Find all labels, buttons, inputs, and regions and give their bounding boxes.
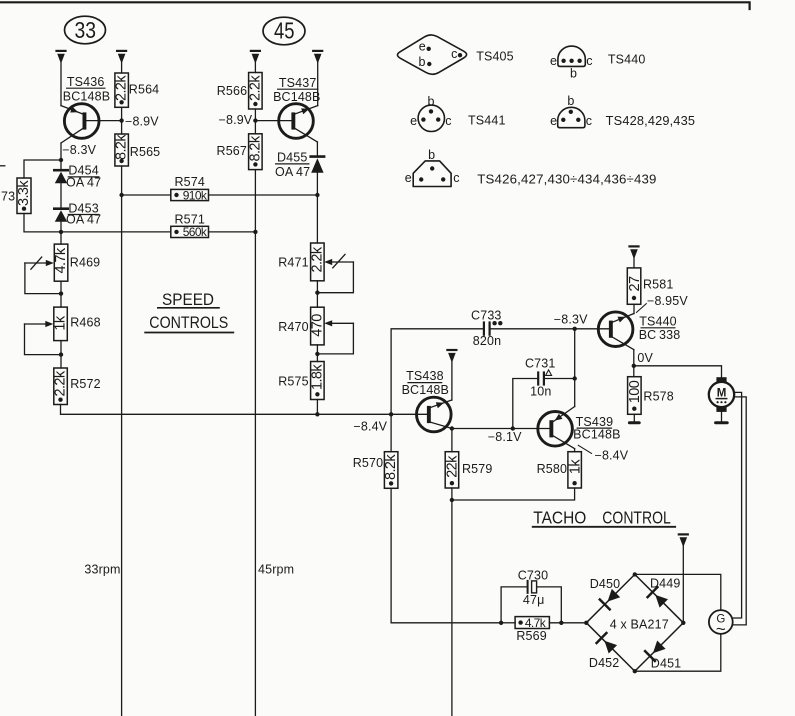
svg-text:22k: 22k bbox=[445, 455, 461, 478]
svg-text:b: b bbox=[419, 55, 426, 69]
diode D454 bbox=[54, 160, 67, 208]
wire bridge bottom to generator bbox=[635, 634, 721, 671]
node 33 speed oval bbox=[65, 16, 106, 44]
svg-text:b: b bbox=[570, 67, 577, 81]
resistor R580 1k bbox=[452, 452, 582, 500]
svg-text:8.2k: 8.2k bbox=[383, 454, 399, 480]
svg-text:c: c bbox=[451, 47, 457, 61]
svg-text:e: e bbox=[405, 171, 412, 185]
svg-text:R570: R570 bbox=[353, 456, 383, 470]
supply arrow above R564 bbox=[117, 51, 126, 73]
svg-text:TS437: TS437 bbox=[279, 76, 317, 90]
svg-text:R567: R567 bbox=[217, 144, 247, 158]
svg-text:R581: R581 bbox=[643, 277, 673, 291]
wire bridge top to generator bbox=[635, 574, 721, 610]
svg-text:D450: D450 bbox=[590, 577, 620, 591]
svg-text:~: ~ bbox=[716, 620, 726, 639]
svg-text:TS426,427,430÷434,436÷439: TS426,427,430÷434,436÷439 bbox=[477, 172, 656, 186]
transistor legend package TS426 427 430-434 436-439 bbox=[413, 161, 451, 187]
node TS436 emitter / R573 branch bbox=[59, 158, 63, 162]
svg-text:b: b bbox=[428, 95, 435, 109]
node bridge bottom corner bbox=[633, 669, 637, 673]
node TS438 collector bbox=[450, 426, 454, 430]
resistor R468 1k trimmer bbox=[25, 307, 68, 355]
svg-text:4.7k: 4.7k bbox=[525, 616, 547, 630]
svg-text:−8.4V: −8.4V bbox=[353, 420, 387, 434]
svg-text:45: 45 bbox=[274, 18, 295, 44]
supply arrow above R581 bbox=[630, 246, 639, 268]
svg-text:R470: R470 bbox=[278, 320, 308, 334]
svg-text:TS405: TS405 bbox=[476, 49, 514, 63]
svg-text:OA 47: OA 47 bbox=[275, 165, 310, 179]
svg-text:−8.4V: −8.4V bbox=[595, 448, 629, 462]
diode D451 bbox=[645, 641, 666, 662]
svg-text:CONTROLS: CONTROLS bbox=[149, 314, 228, 332]
resistor R564 2.2k bbox=[115, 73, 128, 107]
transistor TS437 bbox=[255, 104, 317, 156]
resistor R579 22k bbox=[445, 429, 459, 716]
node D453 bottom / R571 left bbox=[59, 230, 63, 234]
node C731 right bbox=[573, 376, 577, 380]
svg-text:−8.9V: −8.9V bbox=[219, 113, 253, 127]
svg-text:R564: R564 bbox=[129, 83, 159, 97]
resistor R581 27 bbox=[627, 268, 641, 314]
diode D449 bbox=[648, 587, 668, 608]
svg-text:100: 100 bbox=[627, 380, 643, 403]
svg-text:R471: R471 bbox=[278, 256, 308, 270]
diode D450 bbox=[600, 589, 620, 610]
resistor R470 470 trimmer bbox=[311, 307, 354, 361]
node R470 wiper bbox=[315, 352, 319, 356]
svg-text:c: c bbox=[586, 114, 592, 128]
svg-text:0V: 0V bbox=[637, 351, 653, 365]
svg-text:C730: C730 bbox=[518, 568, 548, 582]
node R469 wiper bbox=[59, 291, 63, 295]
capacitor C733 820n bbox=[391, 321, 575, 414]
label D453 OA47 bbox=[66, 201, 101, 226]
label TS436 BC148B bbox=[63, 75, 110, 104]
svg-text:TS438: TS438 bbox=[406, 369, 444, 383]
svg-text:820n: 820n bbox=[473, 334, 501, 348]
label TS440 BC338 bbox=[639, 315, 681, 342]
svg-text:R468: R468 bbox=[70, 315, 100, 329]
svg-text:TACHO: TACHO bbox=[533, 507, 586, 527]
svg-text:470: 470 bbox=[309, 314, 325, 337]
generator G bbox=[709, 610, 733, 634]
svg-text:8.2k: 8.2k bbox=[248, 135, 264, 161]
svg-text:R566: R566 bbox=[217, 84, 247, 98]
wire R565 down / 33rpm column bbox=[121, 166, 123, 716]
svg-text:4 x BA217: 4 x BA217 bbox=[610, 617, 669, 631]
node R571 right junction bbox=[253, 230, 257, 234]
diode D453 bbox=[54, 209, 67, 244]
node R574 right junction bbox=[315, 193, 319, 197]
diode D452 bbox=[597, 633, 618, 654]
bridge rectifier sides bbox=[586, 574, 683, 671]
svg-text:R580: R580 bbox=[537, 462, 567, 476]
svg-text:TS440: TS440 bbox=[608, 53, 646, 67]
wire R573 bottom to column bbox=[24, 214, 61, 232]
motor M bbox=[709, 377, 734, 421]
wire -8.4V rail bbox=[61, 405, 428, 415]
svg-text:2.2k: 2.2k bbox=[53, 370, 69, 396]
node bridge top corner bbox=[633, 572, 637, 576]
label D455 OA47 bbox=[275, 151, 310, 179]
svg-text:BC148B: BC148B bbox=[402, 383, 449, 397]
svg-text:2.2k: 2.2k bbox=[114, 75, 130, 101]
svg-text:R565: R565 bbox=[130, 145, 160, 159]
capacitor C731 10n bbox=[513, 370, 575, 429]
svg-text:b: b bbox=[567, 94, 574, 108]
supply arrow above R566 bbox=[251, 51, 260, 73]
resistor R572 2.2k bbox=[54, 368, 68, 405]
svg-text:33: 33 bbox=[75, 17, 97, 43]
svg-text:SPEED: SPEED bbox=[162, 291, 214, 309]
label D454 OA47 bbox=[66, 164, 101, 190]
wire R564 to -8.9V node bbox=[121, 107, 123, 134]
svg-text:R578: R578 bbox=[643, 389, 673, 403]
svg-text:BC148B: BC148B bbox=[63, 89, 110, 103]
wire motor to generator pair line 2 bbox=[732, 397, 746, 625]
legend row1 labels bbox=[419, 39, 646, 80]
svg-text:C731: C731 bbox=[525, 357, 555, 371]
resistor R578 100 bbox=[628, 366, 642, 421]
title SPEED CONTROLS bbox=[144, 291, 234, 333]
svg-text:b: b bbox=[428, 148, 435, 162]
node R574 left junction bbox=[119, 193, 123, 197]
svg-text:R575: R575 bbox=[278, 375, 308, 389]
transistor legend package TS440 bbox=[558, 46, 585, 66]
svg-text:1k: 1k bbox=[567, 459, 583, 474]
svg-text:TS428,429,435: TS428,429,435 bbox=[606, 114, 695, 128]
svg-text:−8.95V: −8.95V bbox=[647, 294, 688, 308]
wire -8.3V node down to TS439 emitter bbox=[574, 329, 576, 407]
svg-text:TS440: TS440 bbox=[639, 315, 677, 329]
supply arrow above bridge bbox=[679, 534, 688, 622]
node -8.3V junction bbox=[573, 327, 577, 331]
label G generator bbox=[716, 613, 726, 638]
svg-text:910k: 910k bbox=[183, 188, 208, 202]
page top border bbox=[0, 2, 750, 9]
resistor R575 1.8k bbox=[311, 362, 325, 415]
legend row3 labels bbox=[405, 148, 657, 186]
svg-text:−8.9V: −8.9V bbox=[125, 114, 159, 128]
wire R566 to node bbox=[254, 109, 256, 134]
svg-text:D449: D449 bbox=[650, 576, 680, 590]
svg-text:2.2k: 2.2k bbox=[309, 246, 325, 272]
wire R469 to R468 bbox=[60, 281, 62, 307]
svg-text:e: e bbox=[419, 39, 426, 53]
wire left edge tick bbox=[0, 165, 5, 167]
transistor legend package TS428 429 435 bbox=[558, 107, 585, 127]
svg-text:33rpm: 33rpm bbox=[84, 563, 120, 577]
wire motor to generator pair line 1 bbox=[732, 392, 742, 618]
label C733 820n bbox=[471, 308, 501, 348]
title TACHO CONTROL bbox=[532, 507, 676, 527]
transistor TS440 bbox=[598, 304, 646, 366]
svg-text:e: e bbox=[550, 114, 557, 128]
transistor legend package TS405 bbox=[397, 35, 466, 74]
wire R468 to R572 bbox=[60, 341, 62, 368]
svg-text:−8.1V: −8.1V bbox=[488, 430, 522, 444]
svg-text:c: c bbox=[453, 171, 459, 185]
resistor R567 8.2k bbox=[249, 134, 263, 170]
resistor value texts bbox=[16, 75, 643, 630]
node bridge right corner bbox=[681, 621, 685, 625]
node bridge left corner bbox=[584, 621, 588, 625]
resistor R469 4.7k trimmer bbox=[25, 244, 68, 294]
wire 0V to motor bbox=[634, 366, 722, 377]
svg-text:BC148B: BC148B bbox=[573, 427, 620, 441]
legend row2 labels bbox=[410, 94, 695, 128]
resistor R565 8.2k bbox=[115, 134, 128, 166]
node R579-R580 bottom join bbox=[450, 498, 454, 502]
svg-text:D451: D451 bbox=[651, 657, 681, 671]
svg-text:27: 27 bbox=[627, 276, 643, 291]
svg-text:OA 47: OA 47 bbox=[66, 176, 101, 190]
node R569 left bbox=[499, 621, 503, 625]
node 45 speed oval bbox=[263, 17, 305, 45]
svg-text:R572: R572 bbox=[70, 377, 100, 391]
node R468 wiper bbox=[59, 352, 63, 356]
supply arrow above TS437 emitter bbox=[313, 51, 322, 106]
svg-text:−8.3V: −8.3V bbox=[554, 313, 588, 327]
transistor TS436 bbox=[61, 104, 122, 160]
svg-text:M: M bbox=[717, 388, 727, 400]
ground below motor bbox=[714, 421, 729, 424]
supply arrow above TS436 emitter bbox=[57, 51, 66, 106]
diode D455 bbox=[311, 157, 324, 243]
svg-text:D455: D455 bbox=[277, 151, 307, 165]
wire -8.3V node to TS440 base bbox=[575, 328, 609, 330]
node -8.9V (45 side) bbox=[253, 118, 257, 122]
node 0V junction bbox=[632, 364, 636, 368]
resistor R571 560k bbox=[61, 226, 255, 237]
svg-text:TS436: TS436 bbox=[67, 75, 105, 89]
ground below R578 bbox=[628, 421, 641, 424]
svg-text:3.3k: 3.3k bbox=[16, 180, 32, 206]
wire to resistor R573 bbox=[24, 160, 61, 178]
svg-text:BC 338: BC 338 bbox=[639, 328, 681, 342]
svg-text:c: c bbox=[445, 114, 451, 128]
node C731 drop on base wire bbox=[511, 426, 515, 430]
svg-text:2.2k: 2.2k bbox=[248, 75, 264, 101]
svg-text:e: e bbox=[550, 54, 557, 68]
svg-text:TS441: TS441 bbox=[468, 114, 506, 128]
node R471 wiper bbox=[315, 291, 319, 295]
label TS437 BC148B bbox=[273, 76, 320, 104]
svg-text:c: c bbox=[586, 54, 592, 68]
svg-text:560k: 560k bbox=[183, 225, 208, 239]
svg-text:R569: R569 bbox=[516, 629, 546, 643]
transistor TS439 bbox=[538, 407, 592, 454]
transistor TS438 bbox=[417, 397, 452, 432]
svg-text:BC148B: BC148B bbox=[273, 90, 320, 104]
label C731 10n bbox=[525, 357, 555, 399]
label C730 47u bbox=[518, 568, 548, 607]
capacitor C730 47u bbox=[501, 581, 561, 623]
resistor R566 2.2k bbox=[249, 73, 263, 110]
svg-text:R574: R574 bbox=[174, 175, 204, 189]
node C733-R570 on rail bbox=[389, 412, 393, 416]
svg-text:1k: 1k bbox=[53, 315, 69, 330]
svg-text:R469: R469 bbox=[70, 256, 100, 270]
svg-text:47μ: 47μ bbox=[523, 593, 545, 607]
node -8.9V (33 side) bbox=[119, 118, 123, 122]
svg-text:C733: C733 bbox=[471, 308, 501, 322]
resistor R471 2.2k trimmer bbox=[311, 243, 354, 307]
svg-text:1.8k: 1.8k bbox=[309, 364, 325, 390]
node R575 on rail bbox=[315, 412, 319, 416]
svg-text:CONTROL: CONTROL bbox=[602, 507, 671, 527]
svg-text:R579: R579 bbox=[462, 462, 492, 476]
transistor legend package TS441 bbox=[418, 105, 444, 131]
svg-text:D452: D452 bbox=[589, 656, 619, 670]
svg-text:OA 47: OA 47 bbox=[66, 213, 101, 227]
resistor R569 4.7k bbox=[501, 617, 586, 629]
svg-text:8.2k: 8.2k bbox=[114, 134, 130, 160]
resistor R573 3.3k bbox=[17, 178, 31, 214]
svg-text:45rpm: 45rpm bbox=[258, 563, 294, 577]
wire -8.1V to TS439 base bbox=[452, 428, 550, 430]
resistor R570 8.2k bbox=[384, 414, 501, 623]
supply arrow above TS438 bbox=[447, 350, 456, 400]
node R569 right bbox=[559, 621, 563, 625]
svg-text:10n: 10n bbox=[530, 384, 551, 398]
resistor R574 910k bbox=[122, 189, 318, 200]
svg-text:73: 73 bbox=[1, 189, 15, 203]
label TS438 BC148B bbox=[402, 369, 449, 397]
svg-text:−8.3V: −8.3V bbox=[62, 143, 96, 157]
svg-text:4.7k: 4.7k bbox=[53, 247, 69, 273]
svg-text:e: e bbox=[410, 114, 417, 128]
label TS439 BC148B bbox=[573, 415, 620, 441]
wire R567 down / 45rpm column bbox=[254, 170, 256, 716]
